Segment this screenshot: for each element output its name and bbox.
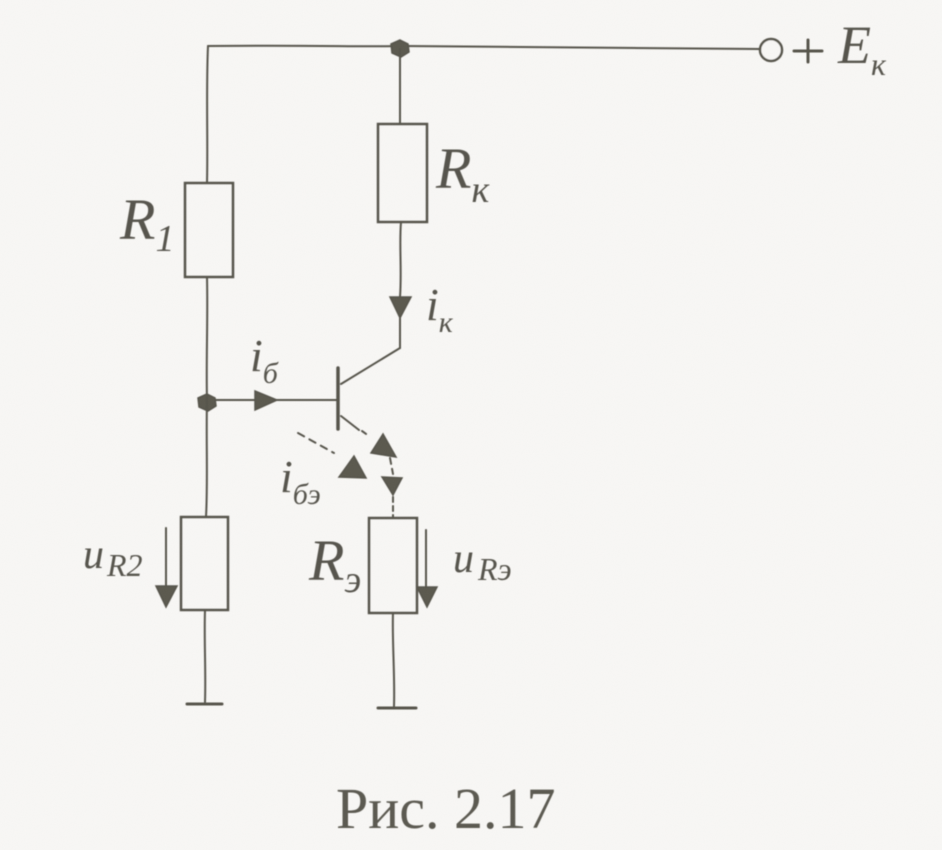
wire emitter dashed [390, 458, 393, 474]
arrow ib [255, 391, 277, 410]
arrow uRe [425, 530, 427, 587]
node junction top [391, 40, 409, 57]
wire R2 to ground [204, 610, 207, 702]
plus sign [794, 40, 822, 62]
wire collector diagonal [341, 348, 400, 384]
wire R1 to node [206, 277, 209, 400]
arrow ibe dashed line [298, 433, 334, 453]
node base junction [198, 394, 216, 411]
wire emitter diagonal [341, 416, 359, 430]
wire collector branch top [399, 49, 401, 124]
terminal Ek circle [760, 39, 782, 61]
arrow emitter down [382, 477, 402, 495]
transistor VT base bar [336, 368, 340, 429]
wire to Re [392, 497, 394, 517]
wire Rk to ik arrow [400, 222, 401, 297]
wire base [207, 399, 338, 401]
wire node to R2 [206, 400, 207, 517]
arrow uR2 [165, 528, 167, 587]
wire ik arrow to collector [399, 318, 401, 348]
resistor Rk [378, 124, 427, 222]
resistor R1 [185, 183, 233, 277]
ground left [187, 703, 222, 706]
resistor Re [369, 518, 417, 613]
arrow ibe head [339, 456, 366, 478]
arrow ik [390, 297, 411, 318]
arrow emitter ie [371, 434, 396, 457]
wire Re to ground [393, 613, 394, 706]
ground right [378, 707, 416, 710]
resistor R2 [181, 517, 228, 610]
wire top rail [208, 46, 759, 49]
wire left branch top [207, 46, 208, 183]
